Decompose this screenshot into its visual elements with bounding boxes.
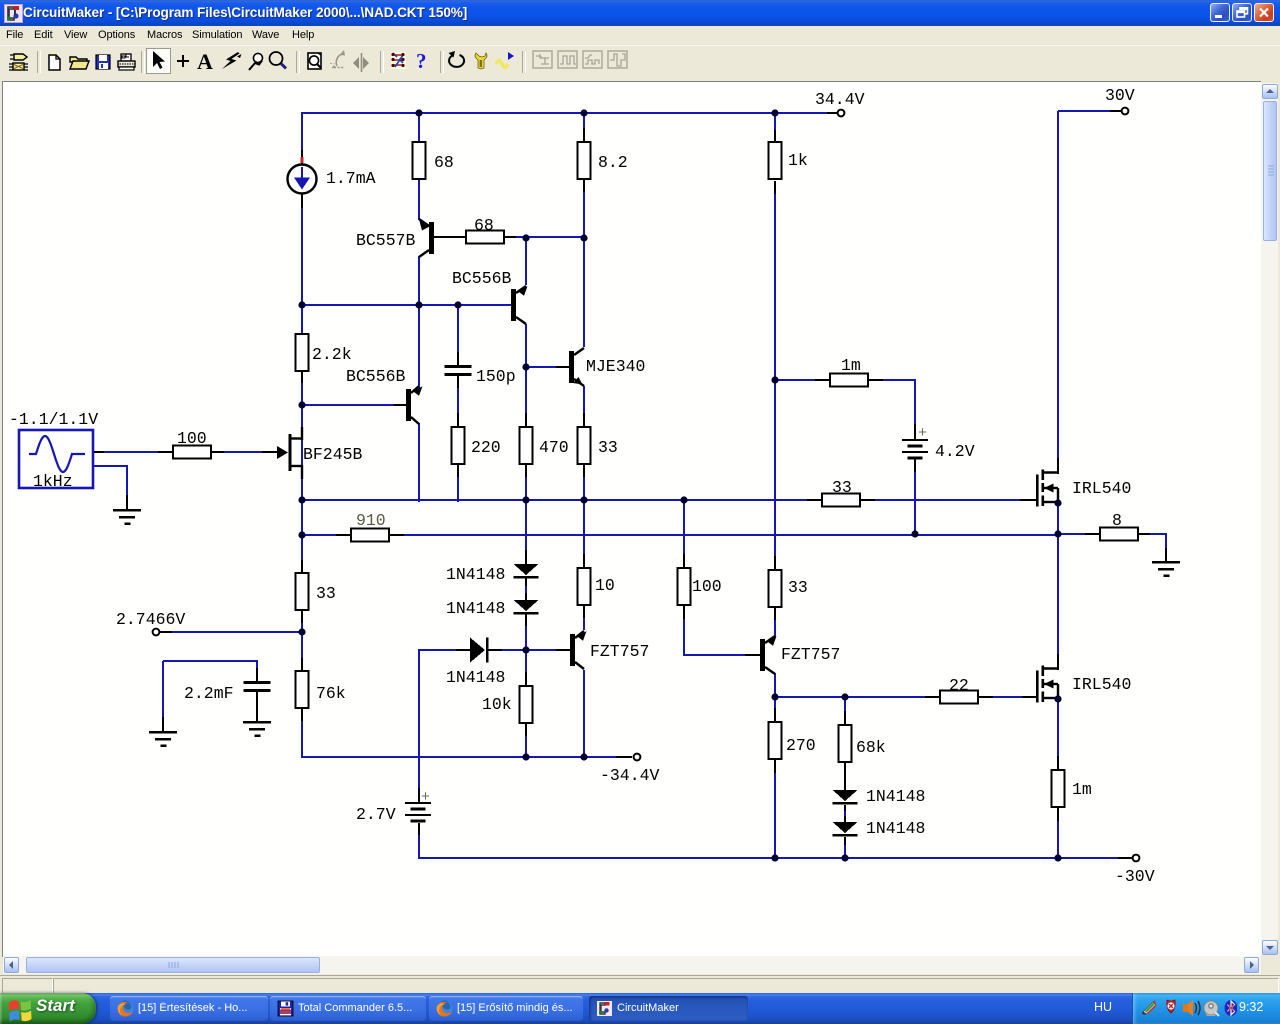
svg-text:BC556B: BC556B [452,269,512,288]
junction node (302,500) [298,496,305,503]
junction node (526,238) [522,234,529,241]
resistor R 1k [769,142,782,179]
wire x302 33 to 76k [301,610,303,624]
svg-text:A: A [197,49,213,74]
library icon [9,54,28,70]
wire x915 battery column [914,379,916,425]
wire x302 current source column [301,112,303,151]
junction node (775,380) [771,376,778,383]
svg-text:?: ? [416,49,427,73]
wire x526 node to 470 [525,367,527,414]
probe [249,53,262,70]
wire x584 MJE emitter to 33 [583,386,585,414]
svg-text:IRL540: IRL540 [1072,479,1131,498]
resistor R 22 [940,691,978,704]
svg-text:1m: 1m [1072,780,1092,799]
wire between diodes [525,578,527,587]
svg-text:2.2mF: 2.2mF [184,684,234,703]
diode D4 1N4148 [833,790,858,801]
terminal 30V [1122,108,1129,115]
junction node (526,757) [522,753,529,760]
transistor Q BC556B (upper) (PNP) [511,289,516,321]
wire x1058 IRL1 source to y534 [1057,504,1059,536]
capacitor C 150p [445,365,472,368]
battery V 4.2V [902,439,928,441]
resistor R 68 (horiz) [466,231,504,244]
wire bottom -30V rail [418,857,1120,859]
junction node (302,632) [298,628,305,635]
diode D2 1N4148 [514,600,539,611]
wire x526 node to 10k [525,650,527,673]
vertical scrollbar [1261,83,1278,955]
svg-text:1N4148: 1N4148 [866,787,925,806]
status bar [0,975,1280,994]
svg-text:+: + [918,425,927,442]
resistor R 33 (x584) [578,427,591,464]
wire top supply rail [302,112,830,114]
junction node (1058,534) [1054,530,1061,537]
wire y650 diode row [419,649,457,651]
wire y655 FZT2 base [684,654,746,656]
wire x845 68k to diodes [844,762,846,791]
window title bar [0,0,1280,26]
junction node (1058,858) [1054,854,1061,861]
transistor BF245B (N-JFET) [289,434,292,471]
wire x1058 y534 to IRL2 [1057,534,1059,655]
junction node (775,113) [771,109,778,116]
svg-text:33: 33 [316,584,336,603]
junction node (526,500) [522,496,529,503]
resistor R 10 [578,568,591,605]
wire 2.2mF cap stubs [256,661,258,669]
svg-text:33: 33 [832,478,852,497]
wire x775 1k column [774,112,776,131]
svg-text:76k: 76k [316,684,346,703]
junction node (302,305) [298,301,305,308]
wire x526 collector to node [525,324,527,368]
resistor R 8.2 [578,142,591,179]
resistor R 470 [520,427,533,464]
wire 30V corner [1058,110,1112,112]
svg-text:FZT757: FZT757 [590,642,649,661]
resistor R 100 input [173,446,211,459]
svg-text:22: 22 [949,676,969,695]
resistor R 33 (x775) [769,570,782,607]
wire y380 1m row [775,379,816,381]
resistor R 68 (x419) [413,142,426,179]
svg-text:1.7mA: 1.7mA [326,169,376,188]
wire x526 10k to -34.4 rail [525,723,527,737]
resistor R 68k [839,725,852,762]
resistor R 910 [351,529,389,542]
wire y535 row [302,534,337,536]
junction node (775,697) [771,693,778,700]
junction node (584,238) [580,234,587,241]
junction node (1058,699) [1054,695,1061,702]
transistor Q BC557B (PNP) [429,222,434,254]
svg-text:910: 910 [356,511,386,530]
toolbar [0,45,1280,79]
wire x526 470 to y500 [525,464,527,478]
wire x584 FZT757 collector to -34.4 rail [583,670,585,758]
wire x1058 1m to rail [1057,808,1059,822]
ground (8 ohm load) [1152,561,1180,563]
diode D5 1N4148 [833,822,858,833]
waveform buttons (grayed) [533,51,627,68]
open [70,57,89,69]
wire x775 FZT2 collector to node [774,673,776,709]
junction node (526,367) [522,363,529,370]
wire source lower pin to ground [93,465,128,467]
transistor Q FZT757 (right) (PNP) [760,639,765,671]
wire input row [93,451,105,453]
wrench yellow [475,53,487,69]
wire x419 BC557B collector to BC556B [418,256,420,389]
wire x526 BC556B emitter column [525,237,527,285]
wire x526 y500 to diodes [525,500,527,552]
transistor Q MJE340 (NPN) [569,351,574,383]
junction node (915,534) [911,530,918,537]
svg-text:100: 100 [692,577,722,596]
junction node (584,113) [580,109,587,116]
svg-text:68: 68 [434,153,454,172]
rotate (gray) [331,50,345,68]
wire y500 row [302,499,808,501]
junction node (526,650) [522,646,529,653]
svg-text:2.2k: 2.2k [312,345,352,364]
reset loop [449,51,465,67]
magnifier [270,52,287,69]
wire diode2 to node 650 [525,614,527,627]
junction node (584,757) [580,753,587,760]
svg-text:4.2V: 4.2V [935,442,975,461]
arrow tool selected [147,49,171,74]
svg-text:10: 10 [595,576,615,595]
wire x775 270 to rail [774,760,776,774]
current source 1.7mA [288,165,317,194]
transistor Q FZT757 (left) (PNP) [570,634,575,666]
wire x584 8.2 column [583,112,585,129]
wire x419 diode branch to battery 2.7V [418,649,420,790]
resistor R 10k [520,686,533,723]
svg-text:FZT757: FZT757 [781,645,840,664]
ground (input source) [113,509,141,511]
wire 2.2mF top link [163,660,258,662]
resistor R 33 (horiz) [822,494,860,507]
terminal -30V [1133,855,1140,862]
resistor R 1m (horiz) [830,374,868,387]
svg-text:150p: 150p [476,367,516,386]
diode D1 1N4148 [514,564,539,575]
svg-text:1N4148: 1N4148 [446,565,505,584]
wire x684 100 column [683,500,685,555]
resistor R 76k [296,671,309,708]
svg-text:33: 33 [598,438,618,457]
svg-text:10k: 10k [482,695,512,714]
wire y405 BC556B base row [302,404,395,406]
svg-text:68k: 68k [856,738,886,757]
terminal 34.4V [838,110,845,117]
wire y697 row [775,696,926,698]
menu bar [0,26,1280,45]
wire x302 below 2.2k to input row [301,370,303,384]
wave probe [496,52,514,68]
zoom doc [308,53,321,69]
print [118,54,135,70]
wire y534 output row to 8 [1058,533,1086,535]
wire x584 y500 to 10 [583,500,585,555]
transistor U IRL540 (top) (NMOS) [1036,475,1039,507]
svg-text:8: 8 [1112,511,1122,530]
svg-text:30V: 30V [1105,86,1135,105]
resistor R 8 [1100,528,1138,541]
wire x419 BC556B collector down [418,423,420,502]
wire y367 MJE base [526,366,557,368]
ground (2.2mF left) [149,731,177,733]
save [96,55,110,69]
resistor R 33 (x302) [296,573,309,610]
svg-text:MJE340: MJE340 [586,357,645,376]
wire x302 76k down to -34.4 rail [301,708,303,722]
junction node (419,305) [415,301,422,308]
new [49,52,60,70]
wire 2.7466V row [160,631,173,633]
junction node (419,113) [415,109,422,116]
svg-text:8.2: 8.2 [598,153,628,172]
transistor Q BC556B (lower) (PNP) [406,389,411,421]
ground (2.2mF) [243,721,271,723]
svg-text:BC557B: BC557B [356,231,416,250]
lightning [222,52,240,69]
resistor R 220 [452,427,465,464]
svg-text:1k: 1k [788,151,808,170]
junction node (458,305) [454,301,461,308]
svg-text:2.7466V: 2.7466V [116,610,185,629]
capacitor C 2.2mF [244,681,271,684]
wire x1058 30V down to IRL1 [1057,111,1059,459]
junction node (302,405) [298,401,305,408]
svg-text:2.7V: 2.7V [356,805,396,824]
wire -34.4V rail [302,756,618,758]
junction node (845,858) [841,854,848,861]
wire x458 220 down [457,464,459,478]
resistor R 270 [769,722,782,759]
junction node (584,500) [580,496,587,503]
junction node (1058,503) [1054,499,1061,506]
terminal -34.4V [634,754,641,761]
battery V 2.7V [405,802,431,804]
resistor R 100 (x684) [678,568,691,605]
wire x584 10 to FZT757 emitter [583,605,585,619]
taskbar [0,993,1280,1024]
svg-text:220: 220 [471,438,501,457]
junction node (845,697) [841,693,848,700]
wire x775 33 to FZT2 emitter [774,607,776,621]
plus tool [177,101,189,113]
svg-text:470: 470 [539,438,569,457]
svg-text:BC556B: BC556B [346,367,406,386]
svg-text:1kHz: 1kHz [33,472,73,491]
svg-text:-30V: -30V [1115,867,1155,886]
transistor U IRL540 (bottom) (NMOS) [1036,671,1039,703]
svg-text:270: 270 [786,736,816,755]
resistor R 1m (x1058) [1052,770,1065,807]
junction node (302,535) [298,531,305,538]
wire x584 33 to y500 [583,464,585,478]
terminal 2.7466V [153,629,160,636]
diode D3 1N4148 [470,638,485,663]
wire x1058 IRL2 source to 1m [1057,700,1059,757]
svg-text:1m: 1m [841,356,861,375]
svg-text:-1.1/1.1V: -1.1/1.1V [9,410,98,429]
wire y238 68 row [434,236,467,238]
svg-text:68: 68 [474,216,494,235]
svg-text:+: + [421,789,430,806]
svg-text:1N4148: 1N4148 [866,819,925,838]
svg-text:100: 100 [177,429,207,448]
svg-text:-34.4V: -34.4V [600,766,660,785]
svg-text:33: 33 [788,578,808,597]
colorful netlist icon [391,52,406,69]
wire x845 68k column [844,697,846,712]
wire 8 to ground [1165,533,1167,549]
mirror (gray) [353,53,369,103]
resistor R 2.2k [296,334,309,371]
source -1.1/1.1V 1kHz [19,430,93,488]
wire x458 150p column [457,304,459,353]
wire 34.4V terminal stub [827,112,837,114]
junction node (775,858) [771,854,778,861]
wire x419 emitter BC557B [418,112,420,220]
svg-text:IRL540: IRL540 [1072,675,1131,694]
horizontal scrollbar [3,956,1261,974]
wire y305 row [302,304,512,306]
svg-text:BF245B: BF245B [303,445,363,464]
svg-text:1N4148: 1N4148 [446,599,505,618]
svg-text:34.4V: 34.4V [815,90,865,109]
wire battery 2.7V to bottom rail [418,823,420,836]
junction node (684,500) [680,496,687,503]
svg-text:1N4148: 1N4148 [446,668,505,687]
